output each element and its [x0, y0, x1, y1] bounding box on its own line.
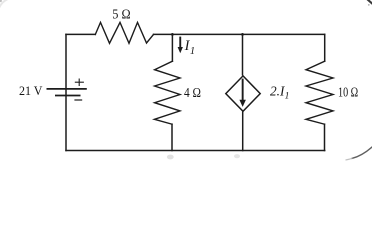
- svg-text:2.I: 2.I: [270, 85, 286, 100]
- voltage source V1 battery plates: [47, 89, 87, 96]
- wire dependent-source branch top stub: [242, 34, 244, 74]
- wire 4-ohm branch bottom stub: [171, 124, 173, 150]
- junction dot top A: [171, 33, 174, 36]
- stray frame corner smudge top-left: [0, 0, 2, 2]
- wire 4-ohm branch top stub: [171, 34, 173, 61]
- junction bleed mark bottom B: [234, 154, 240, 158]
- wire dependent-source branch bottom stub: [242, 112, 244, 150]
- battery plus sign: [75, 79, 84, 87]
- stray frame arc top-left: [0, 0, 9, 9]
- dependent source internal arrow: [239, 79, 246, 107]
- svg-text:5 Ω: 5 Ω: [112, 8, 130, 23]
- wire left branch vertical: [65, 34, 67, 150]
- svg-text:1: 1: [190, 46, 195, 57]
- junction bleed mark bottom A: [167, 155, 174, 160]
- stray frame arc tail bottom-right: [346, 158, 353, 160]
- resistor R2 4-ohm zigzag: [154, 61, 180, 124]
- junction dot top B: [241, 33, 244, 36]
- wire right branch top stub: [324, 34, 326, 61]
- svg-text:10 Ω: 10 Ω: [338, 85, 358, 100]
- svg-text:21 V: 21 V: [19, 84, 43, 98]
- resistor R1 5-ohm zigzag: [95, 22, 153, 43]
- svg-text:4 Ω: 4 Ω: [184, 86, 201, 101]
- wire bottom segment: [66, 150, 325, 152]
- wire right branch bottom stub: [324, 124, 326, 150]
- wire top-middle segment: [154, 33, 325, 35]
- battery minus sign: [74, 99, 82, 101]
- svg-text:1: 1: [285, 91, 290, 101]
- dependent current source U1 diamond: [226, 76, 260, 111]
- resistor R3 10-ohm zigzag: [306, 61, 333, 124]
- wire top-left segment: [66, 33, 95, 35]
- stray frame mark top-right: [367, 0, 372, 4]
- current arrow I1: [178, 37, 183, 54]
- stray frame arc bottom-right: [352, 147, 372, 159]
- stray frame dot top-right: [368, 4, 370, 6]
